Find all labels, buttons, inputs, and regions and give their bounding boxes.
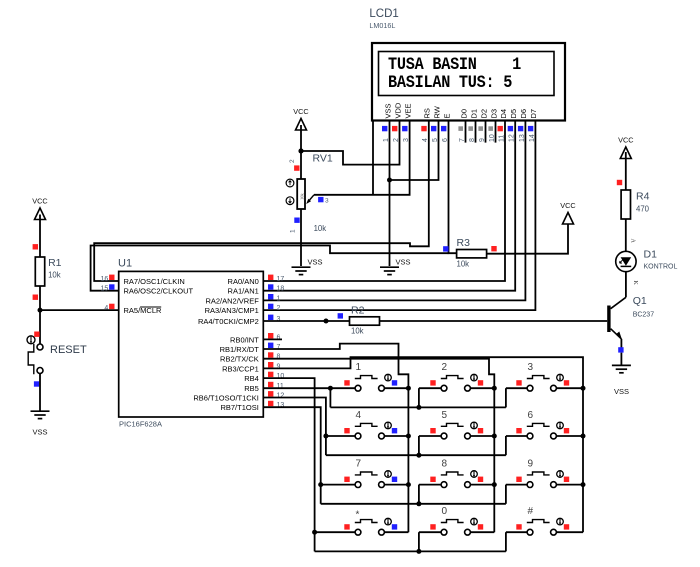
svg-text:3: 3: [325, 198, 329, 205]
svg-text:RA0/AN0: RA0/AN0: [228, 277, 259, 286]
svg-text:R3: R3: [457, 237, 471, 249]
svg-text:E: E: [442, 113, 451, 118]
svg-text:RB0/INT: RB0/INT: [230, 335, 259, 344]
svg-text:D6: D6: [519, 109, 528, 119]
svg-text:10: 10: [277, 373, 285, 380]
svg-text:RB6/T1OSO/T1CKI: RB6/T1OSO/T1CKI: [193, 394, 258, 403]
svg-text:3: 3: [528, 362, 534, 373]
svg-text:VDD: VDD: [393, 102, 402, 118]
svg-text:VCC: VCC: [560, 201, 575, 210]
svg-text:2: 2: [277, 305, 281, 312]
svg-text:10k: 10k: [299, 193, 304, 201]
svg-text:RV1: RV1: [313, 153, 333, 165]
svg-text:470: 470: [636, 205, 650, 214]
svg-text:VSS: VSS: [614, 387, 629, 396]
svg-text:RB4: RB4: [244, 374, 259, 383]
svg-text:*: *: [356, 510, 360, 521]
svg-text:2: 2: [442, 362, 448, 373]
svg-text:10k: 10k: [48, 271, 61, 280]
svg-text:D5: D5: [509, 109, 518, 119]
svg-text:U1: U1: [118, 258, 132, 270]
svg-text:RA1/AN1: RA1/AN1: [228, 287, 259, 296]
svg-text:17: 17: [277, 276, 285, 283]
svg-text:RA4/T0CKI/CMP2: RA4/T0CKI/CMP2: [198, 317, 259, 326]
svg-text:R2: R2: [351, 305, 365, 317]
svg-text:10k: 10k: [457, 260, 470, 269]
svg-text:VEE: VEE: [403, 103, 412, 118]
svg-text:D3: D3: [489, 109, 498, 119]
svg-text:6: 6: [277, 334, 281, 341]
svg-text:A: A: [630, 239, 636, 244]
svg-text:0: 0: [442, 506, 448, 517]
svg-text:10k: 10k: [314, 224, 327, 233]
svg-text:#: #: [528, 506, 534, 517]
svg-text:RB7/T1OSI: RB7/T1OSI: [220, 403, 258, 412]
svg-text:RB3/CCP1: RB3/CCP1: [222, 364, 259, 373]
svg-text:8: 8: [277, 354, 281, 361]
svg-text:VCC: VCC: [32, 197, 47, 206]
svg-text:RW: RW: [432, 105, 441, 118]
svg-text:BASILAN TUS: 5: BASILAN TUS: 5: [388, 72, 513, 92]
svg-text:1: 1: [356, 362, 362, 373]
svg-text:2: 2: [289, 159, 296, 163]
svg-text:VSS: VSS: [308, 258, 323, 267]
svg-text:K: K: [632, 281, 638, 286]
svg-text:VSS: VSS: [383, 103, 392, 118]
svg-text:13: 13: [277, 402, 285, 409]
svg-text:9: 9: [277, 363, 281, 370]
svg-text:7: 7: [277, 344, 281, 351]
svg-text:D1: D1: [644, 249, 658, 261]
svg-text:VSS: VSS: [396, 258, 411, 267]
svg-text:RA3/AN3/CMP1: RA3/AN3/CMP1: [205, 306, 259, 315]
svg-text:KONTROL: KONTROL: [644, 264, 678, 271]
svg-text:4: 4: [104, 305, 108, 312]
svg-text:15: 15: [101, 286, 109, 293]
svg-text:5: 5: [442, 410, 448, 421]
svg-text:LM016L: LM016L: [369, 21, 395, 30]
svg-text:16: 16: [101, 276, 109, 283]
svg-text:BC237: BC237: [633, 312, 655, 319]
svg-text:10k: 10k: [351, 327, 364, 336]
svg-text:RESET: RESET: [50, 344, 87, 356]
svg-text:D4: D4: [499, 109, 508, 119]
svg-text:RB5: RB5: [244, 384, 259, 393]
svg-text:1: 1: [289, 229, 296, 233]
svg-text:RB2/TX/CK: RB2/TX/CK: [220, 355, 259, 364]
svg-text:6: 6: [528, 410, 534, 421]
svg-text:3: 3: [277, 316, 281, 323]
svg-text:Q1: Q1: [633, 295, 647, 307]
svg-text:VCC: VCC: [293, 107, 308, 116]
svg-text:D0: D0: [459, 109, 468, 119]
svg-text:R4: R4: [636, 191, 650, 203]
svg-text:VSS: VSS: [32, 428, 47, 437]
svg-text:PIC16F628A: PIC16F628A: [119, 420, 162, 429]
svg-text:LCD1: LCD1: [369, 8, 398, 20]
svg-text:VCC: VCC: [618, 136, 633, 145]
svg-text:4: 4: [356, 410, 362, 421]
svg-text:8: 8: [442, 458, 448, 469]
svg-text:R1: R1: [48, 257, 62, 269]
svg-text:RA7/OSC1/CLKIN: RA7/OSC1/CLKIN: [124, 277, 185, 286]
svg-text:18: 18: [277, 286, 285, 293]
svg-text:RA6/OSC2/CLKOUT: RA6/OSC2/CLKOUT: [124, 287, 194, 296]
svg-text:D1: D1: [469, 109, 478, 119]
svg-text:RA2/AN2/VREF: RA2/AN2/VREF: [205, 296, 259, 305]
svg-text:RS: RS: [423, 108, 432, 118]
svg-text:D7: D7: [529, 109, 538, 119]
svg-text:12: 12: [277, 393, 285, 400]
svg-text:7: 7: [356, 458, 362, 469]
svg-text:11: 11: [277, 383, 284, 390]
svg-text:9: 9: [528, 458, 534, 469]
svg-text:RB1/RX/DT: RB1/RX/DT: [220, 345, 260, 354]
svg-text:1: 1: [277, 295, 281, 302]
svg-text:D2: D2: [479, 109, 488, 119]
